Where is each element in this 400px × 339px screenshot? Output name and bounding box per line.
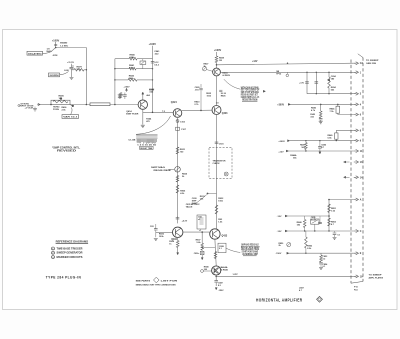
svg-text:TP12: TP12 [276,73,282,75]
diamond mark title [317,296,323,302]
resistor R846 box [337,104,339,106]
svg-text:+4.3V: +4.3V [182,220,188,223]
svg-text:1: 1 [52,248,53,250]
marker symbol in dashed box [224,172,228,176]
wire Q414 emitter down [142,109,144,124]
switch SW480 arm [51,48,56,52]
capacitor C846 branch [319,141,321,147]
wire vertical rail x86 [85,48,87,105]
power +100V arrow above Q414 [142,93,144,100]
svg-text:TO SWEEP: TO SWEEP [366,60,379,62]
svg-text:4.5-25: 4.5-25 [311,219,316,222]
svg-text:8-80: 8-80 [64,70,69,72]
wire pot to delay line [70,104,90,106]
svg-text:-150V: -150V [276,253,282,255]
note block swp cal top right [224,79,240,89]
svg-text:+12V: +12V [252,61,258,63]
capacitor C840 trimmer box [140,61,146,64]
ground R845 branch [319,122,323,124]
ground at input [33,109,37,111]
terminal pin 9 [354,139,359,142]
svg-text:VALUE: VALUE [186,206,193,209]
terminal pin A [354,198,359,201]
svg-text:C107: C107 [181,129,187,131]
svg-text:+175: +175 [299,82,305,84]
svg-text:C836+: C836+ [194,253,201,255]
connector bottom join [351,281,363,283]
resistor R843 pair [119,93,122,99]
svg-text:TIME-BASE TRIGGER: TIME-BASE TRIGGER [57,247,83,250]
resistor R849 box [335,133,338,139]
stub terminal y177 [344,176,346,178]
svg-text:C103: C103 [180,121,186,123]
svg-text:R840: R840 [130,53,136,56]
resistor R848 [304,216,306,220]
svg-text:+12V: +12V [278,151,284,153]
svg-text:+1 V/CM: +1 V/CM [25,107,33,109]
svg-text:R405: R405 [59,94,65,97]
svg-text:Q423: Q423 [222,112,228,115]
terminal pin E [354,252,359,255]
capacitor C851 below line [334,231,336,233]
capacitor C838 box right of rail [218,243,226,252]
svg-text:-12V: -12V [277,231,282,233]
svg-text:TO SWEEP: TO SWEEP [369,275,383,277]
svg-text:1-2 SEC: 1-2 SEC [60,45,69,47]
capacitor C820 stub [200,84,202,88]
delay line DL400 [90,103,110,106]
capacitor C844 small [123,95,127,96]
capacitor C832 box left of Q433 [197,215,206,229]
capacitor C845 [319,119,323,120]
svg-text:B464: B464 [222,71,228,74]
node R831 junction [207,193,209,195]
svg-text:R842: R842 [129,75,135,78]
terminal pin 1 [354,71,359,74]
svg-text:PLU: PLU [354,289,358,291]
svg-text:& R829: & R829 [222,75,230,77]
svg-text:NORM: NORM [50,75,59,77]
capacitor C847 below output [215,276,217,280]
pot wiper [70,105,74,107]
svg-text:LIST FOR: LIST FOR [161,280,178,282]
svg-text:REFERENCE DIAGRAMS: REFERENCE DIAGRAMS [56,240,89,244]
wire RC network bottom to connector [307,93,354,95]
svg-text:-2CM: -2CM [52,55,58,57]
leader to note block bottom [226,248,240,252]
connector top tail [358,54,363,58]
terminal pin 6 [354,113,359,116]
wire Q433 emitter down to output [215,239,216,266]
svg-text:DELAYING: DELAYING [28,52,42,55]
svg-text:TYPE 284 PLUG-IN: TYPE 284 PLUG-IN [46,275,81,280]
trimmer C850 [311,219,319,224]
svg-text:3: 3 [52,257,53,259]
svg-text:SWEEP GENERATOR: SWEEP GENERATOR [57,252,83,255]
svg-text:POSN: POSN [53,109,59,111]
ground Q414 emitter [141,125,145,127]
wire switch to rail [56,47,87,49]
connector dashed line J11 right [362,58,364,282]
test point C103 on rail [177,118,179,223]
capacitor C107 box [176,127,180,130]
svg-text:EMIT FLWR: EMIT FLWR [126,113,138,115]
svg-text:C841: C841 [154,50,160,53]
terminal pin C [354,230,359,233]
svg-text:R841: R841 [129,64,135,67]
wire B464 emitter to connector [220,71,353,73]
capacitor C836 box [200,251,204,254]
pot R824 swp mag regis on rail [175,167,181,173]
svg-text:2: 2 [52,253,53,255]
resistor R832 on rail [215,205,218,214]
resistor R822 on rail [176,147,179,154]
node +12V line [216,64,218,66]
svg-text:SEMICONDUCTOR TYPE CONNECTIONS: SEMICONDUCTOR TYPE CONNECTIONS [136,285,177,287]
svg-text:Q433: Q433 [222,234,228,237]
connector dashed line J11 left [350,60,352,284]
svg-text:R478: R478 [77,65,83,68]
label box HOLDOFF [49,73,60,77]
svg-text:+100V: +100V [123,86,130,88]
wire Q414 to Q424 [143,111,174,113]
wire delay line to Q414 base [110,104,138,106]
wire R837 node to Q433 emitter [202,246,215,248]
capacitor C854 [319,263,323,264]
wire Q424 to Q423 base [182,109,212,111]
svg-text:CHECK: CHECK [213,163,221,165]
pot R827 [202,67,206,71]
svg-text:270k: 270k [129,68,135,70]
resistor R828 [215,56,218,63]
resistor R854 below line [320,253,322,255]
svg-text:VAR 10-1: VAR 10-1 [63,116,78,119]
transistor Q414 [138,100,147,109]
stub terminal y162 [344,161,346,163]
svg-text:+100V: +100V [214,49,222,52]
svg-text:SEE PARTS: SEE PARTS [136,279,151,282]
wire rail Q423 to Q433 [216,115,218,229]
wire input to pot [40,104,51,106]
resistor R834 branch [328,72,330,77]
transistor Q433 [210,229,220,239]
terminal pin 14 [354,176,359,179]
svg-text:REGISTRATION: REGISTRATION [242,98,257,101]
note table mid-left timing chart [136,135,157,139]
wire line y199 to connector [329,199,354,201]
ground left of Q434 [154,239,158,241]
label box DELAYING [27,51,43,55]
resistor R842 row3 [115,79,128,81]
capacitor C849 stub [319,216,321,222]
capacitor C833 branch [315,72,317,93]
svg-text:Q424: Q424 [171,101,178,104]
wire +12V to connector [217,63,354,65]
svg-text:AMPL PLATES: AMPL PLATES [369,276,384,279]
svg-text:GEN SW: GEN SW [366,63,377,65]
svg-text:-150V: -150V [218,290,224,292]
dashed box marker amplifier [209,148,232,179]
resistor R845 branch [320,104,322,106]
svg-text:REVISED: REVISED [57,150,77,152]
capacitor C834b on rail [176,218,180,219]
svg-text:1M: 1M [219,60,222,62]
svg-text:*SWP CONTROL INTL,: *SWP CONTROL INTL, [52,147,80,149]
capacitor C826 [219,90,222,91]
arrow supply small [201,258,203,260]
terminal pin 8 [354,129,359,132]
resistor R852 between lines [305,231,307,237]
terminal pin 11 [354,150,359,153]
terminal pin 13 [354,161,359,164]
terminal pin 3 [354,92,359,95]
transistor B464 [213,68,221,76]
svg-text:+300V: +300V [278,141,285,143]
capacitor C between stage left [155,224,157,229]
svg-text:100k: 100k [130,57,136,59]
power -150V below output [215,288,217,290]
svg-text:+11.5V: +11.5V [67,62,74,64]
terminal pin C2 [354,62,359,65]
terminal pin 19 [354,275,359,278]
wire B464 collector chain down to Q423 [216,76,218,105]
wire Q434 to Q433 [183,231,210,233]
transistor Q424 [173,109,182,118]
transistor B464A output [212,266,221,275]
svg-text:+300V: +300V [277,104,284,106]
leader arc from Q424 wire to note [136,116,171,134]
svg-text:Q414: Q414 [126,110,132,113]
terminal pin 4 [354,103,359,106]
svg-text:HORIZONTAL AMPLIFIER: HORIZONTAL AMPLIFIER [256,297,303,302]
wire Q434 emitter down [177,238,179,241]
transistor Q423 [212,106,221,115]
resistor R847 between y140 and y151 [305,143,308,150]
resistor R478 [72,65,75,67]
svg-text:C1-5B: C1-5B [128,139,136,141]
pot R850 [287,243,291,247]
svg-text:0.5-3: 0.5-3 [154,64,160,66]
svg-text:1.257: 1.257 [233,274,239,276]
svg-text:+100V: +100V [149,43,157,46]
svg-text:540k: 540k [129,77,135,80]
resistor R840 row1 [115,58,129,60]
svg-text:MARKER CIRCUITS: MARKER CIRCUITS [57,256,83,259]
svg-text:+100V: +100V [52,39,60,42]
terminal arrow input [37,103,40,105]
label box attenuator [62,115,79,119]
wire ladder left rail [114,59,116,105]
ground below C478 [70,77,74,79]
resistor network col x329 [328,200,330,232]
svg-text:SWP MAG: SWP MAG [151,166,165,169]
svg-text:REGIST TIME: REGIST TIME [140,148,153,150]
transistor Q434 [173,227,183,237]
svg-text:& R841: & R841 [221,269,229,272]
svg-text:B464A: B464A [221,266,228,269]
svg-text:SW480: SW480 [60,42,68,45]
capacitor C832 branch [306,72,308,93]
capacitor C831 on rail [215,142,219,143]
column R837 C836 [201,232,203,243]
svg-text:-12V: -12V [277,216,282,218]
wire output emitter to connector [215,275,217,276]
resistor R841 row2 [115,68,129,70]
potentiometer R405 HORIZ POSITION [51,100,70,104]
